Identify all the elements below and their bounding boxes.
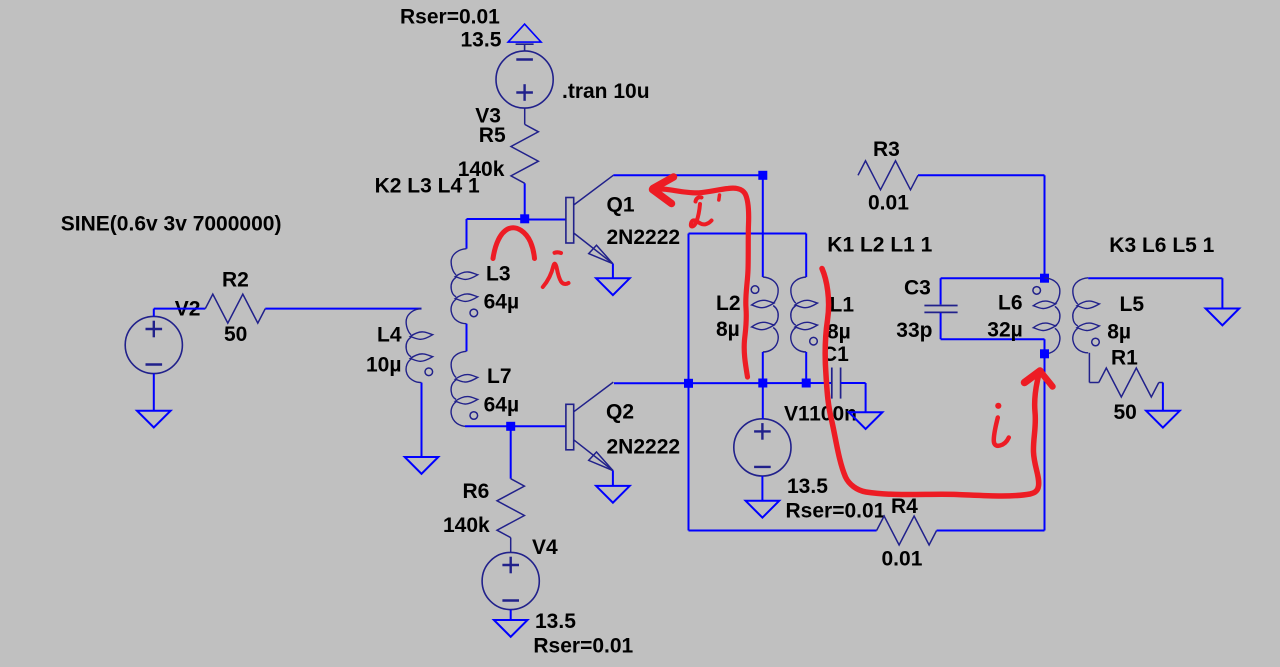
inductor L3 [451, 249, 478, 324]
node H junction (L6 bottom/C3/R4) [1040, 349, 1049, 358]
wire Q2 emitter to ground [612, 471, 614, 486]
wire V1 to ground [761, 476, 763, 501]
svg-text:K2 L3 L4 1: K2 L3 L4 1 [375, 175, 480, 198]
resistor R5 [511, 124, 538, 183]
wire node B to R6 [510, 426, 512, 478]
svg-text:L2: L2 [716, 292, 741, 315]
svg-text:R5: R5 [479, 124, 506, 147]
wire L1 bottom lead [805, 352, 807, 383]
resistor R2 [205, 294, 265, 323]
svg-text:8µ: 8µ [1107, 321, 1131, 344]
inductor L1 [791, 277, 818, 352]
svg-text:K1 L2 L1 1: K1 L2 L1 1 [827, 234, 932, 257]
node G junction (L6 top/C3/R3) [1040, 274, 1049, 283]
svg-text:L6: L6 [998, 292, 1023, 315]
wire node C down to L2 [762, 175, 764, 277]
wire R2 to L4 [265, 308, 421, 310]
ground right of L5 [1206, 309, 1240, 326]
svg-text:33p: 33p [896, 319, 932, 342]
red annotation: letter i below arch [543, 252, 569, 287]
inductor L2 [751, 277, 778, 352]
resistor R3 [858, 161, 918, 190]
svg-text:0.01: 0.01 [868, 192, 909, 215]
svg-text:SINE(0.6v 3v 7000000): SINE(0.6v 3v 7000000) [61, 213, 282, 236]
svg-text:L7: L7 [487, 365, 512, 388]
svg-text:8µ: 8µ [716, 318, 740, 341]
svg-text:0.01: 0.01 [882, 548, 923, 571]
wire C3 top [941, 278, 1045, 304]
node D junction (left rail/Q2 collector) [684, 379, 693, 388]
svg-text:L1: L1 [830, 294, 855, 317]
node C junction (Q1 collector/R3) [758, 171, 767, 180]
wire bottom rail left [689, 530, 877, 532]
svg-text:64µ: 64µ [484, 291, 519, 314]
voltage source V2 [125, 316, 182, 373]
ground below V2 [137, 411, 171, 428]
node F junction (L1 bottom/C1) [802, 379, 811, 388]
wire V2 top to R2 [154, 309, 206, 317]
svg-text:32µ: 32µ [987, 319, 1022, 342]
ground below Q1 emitter [596, 278, 630, 295]
wire C3 bottom [941, 313, 1045, 354]
wire node E to V1 [762, 383, 764, 419]
node B junction (L7/R6/Q2 base) [506, 422, 515, 431]
red annotation: arch over L3 [493, 228, 535, 259]
ground below L4 [405, 457, 439, 474]
svg-text:Rser=0.01: Rser=0.01 [786, 500, 886, 523]
wire L3 to L7 [466, 324, 468, 352]
wire L7 to node B and Q2 base [465, 425, 566, 427]
svg-text:2N2222: 2N2222 [607, 436, 681, 459]
svg-text:140k: 140k [443, 514, 490, 537]
voltage source V4 [482, 552, 539, 609]
red annotation: letter i-prime near Q1 [691, 195, 720, 227]
wire node A to Q1 base [525, 219, 566, 221]
red annotation: long loop with up arrow through L1 and L6 [822, 269, 1053, 496]
svg-text:R6: R6 [463, 480, 490, 503]
wire L5 top to ground [1088, 278, 1222, 308]
svg-text:Rser=0.01: Rser=0.01 [400, 6, 500, 29]
svg-text:L3: L3 [486, 263, 511, 286]
inductor L5 [1073, 278, 1100, 353]
wire left vertical rail [688, 234, 690, 531]
svg-text:L5: L5 [1120, 293, 1145, 316]
svg-text:50: 50 [1114, 401, 1137, 424]
svg-text:R3: R3 [873, 138, 900, 161]
svg-text:L4: L4 [377, 324, 402, 347]
capacitor C1 [832, 368, 841, 399]
voltage source V3 [496, 51, 553, 108]
wire node A to L3 [467, 219, 525, 249]
inductor L6 [1033, 278, 1060, 354]
svg-text:64µ: 64µ [484, 394, 519, 417]
red annotation: letter i near L6 [994, 403, 1009, 446]
transistor Q2 2N2222 [566, 382, 613, 470]
wire V4 to ground [510, 610, 512, 620]
svg-text:Q2: Q2 [606, 401, 634, 424]
svg-text:R2: R2 [222, 269, 249, 292]
svg-text:13.5: 13.5 [787, 475, 828, 498]
wire R6 to V4 [510, 538, 512, 553]
capacitor C3 [924, 306, 957, 313]
voltage source V1 [734, 419, 791, 476]
svg-text:K3 L6 L5 1: K3 L6 L5 1 [1109, 234, 1214, 257]
power flag above V3 [508, 24, 541, 50]
ground below V1 [746, 501, 780, 518]
wire Q1 collector net [613, 174, 763, 176]
wire R5 to node A [524, 183, 526, 219]
ground below Q2 emitter [596, 486, 630, 503]
resistor R4 [877, 516, 937, 545]
svg-text:V4: V4 [532, 536, 558, 559]
svg-text:13.5: 13.5 [461, 29, 502, 52]
wire L4 to ground [421, 383, 423, 457]
svg-text:10µ: 10µ [366, 354, 401, 377]
wire Q1 emitter to ground [612, 264, 614, 279]
wire top rail of tank [689, 233, 807, 235]
node E junction (L2 bottom/V1) [758, 379, 767, 388]
inductor L4 [406, 309, 433, 383]
svg-text:.tran 10u: .tran 10u [562, 80, 650, 103]
svg-text:8µ: 8µ [827, 321, 851, 344]
wire Q2 collector to tank bottom rail [614, 382, 832, 384]
wire V2 bottom to ground [153, 374, 155, 411]
wire R1 to ground [1159, 383, 1163, 411]
ground right of C1 [849, 412, 883, 429]
resistor R1 [1099, 368, 1159, 397]
wire L2 bottom lead [762, 352, 764, 383]
svg-text:C3: C3 [904, 276, 931, 299]
wire V3 to R5 [524, 108, 526, 125]
wire C1 to ground [841, 383, 866, 412]
svg-text:R1: R1 [1111, 347, 1138, 370]
wire L1 top lead [805, 234, 807, 278]
svg-text:2N2222: 2N2222 [607, 226, 681, 249]
ground right of R1 [1146, 411, 1180, 428]
svg-text:R4: R4 [891, 495, 918, 518]
transistor Q1 2N2222 [566, 175, 613, 263]
svg-text:V1: V1 [784, 403, 810, 426]
svg-text:Rser=0.01: Rser=0.01 [533, 635, 633, 658]
svg-text:Q1: Q1 [607, 194, 635, 217]
wire L5 bottom to R1 [1089, 353, 1098, 383]
red annotation: curved arrow pointing left at Q1 collector [653, 177, 749, 377]
wire bottom rail right [937, 354, 1045, 531]
node A junction (R5/L3/Q1 base) [520, 214, 529, 223]
resistor R6 [497, 479, 524, 538]
inductor L7 [451, 351, 478, 426]
svg-text:50: 50 [224, 323, 247, 346]
wire R3 to right vertical [918, 175, 1045, 278]
ground below V4 [494, 620, 528, 637]
svg-text:13.5: 13.5 [535, 610, 576, 633]
